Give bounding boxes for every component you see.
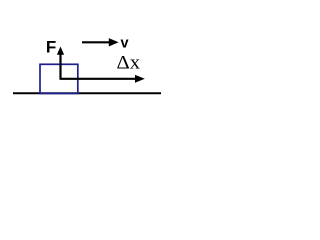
velocity arrow v (rightward) bbox=[82, 38, 119, 46]
svg-text:Δx: Δx bbox=[117, 53, 141, 74]
svg-text:F: F bbox=[46, 37, 56, 56]
block (box being pushed) bbox=[40, 64, 78, 93]
force arrow F (upward) bbox=[57, 47, 64, 80]
svg-text:v: v bbox=[121, 35, 129, 51]
displacement arrow dx (rightward) bbox=[60, 75, 145, 83]
ground line bbox=[13, 92, 161, 94]
